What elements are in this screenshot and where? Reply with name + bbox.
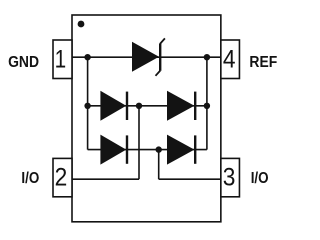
wire: pin3 riser node B <box>158 150 160 180</box>
TVS zener diode Z1 <box>132 38 165 75</box>
wire: GND/REF rail pin1 to pin4 <box>72 56 221 58</box>
svg-text:1: 1 <box>55 45 67 73</box>
wire: GND riser <box>87 57 89 149</box>
junction: pin1/GND node <box>84 54 90 60</box>
wire: pin2 lead <box>72 178 139 180</box>
junction: node A (pin2 net) <box>136 103 142 109</box>
svg-text:I/O: I/O <box>251 170 269 187</box>
wire: lower diode row <box>88 149 207 151</box>
svg-text:4: 4 <box>223 46 236 74</box>
pin 3 box <box>221 158 240 196</box>
wire: upper diode row <box>88 105 207 107</box>
svg-text:I/O: I/O <box>21 170 39 187</box>
diode D4 (I/O pin3 to REF) <box>167 135 195 165</box>
svg-text:GND: GND <box>8 53 39 71</box>
package outline U1 <box>72 15 221 222</box>
diode D2 (I/O pin2 to REF) <box>167 91 195 121</box>
junction: node B (pin3 net) <box>156 146 162 152</box>
svg-text:3: 3 <box>223 163 236 191</box>
junction: REF riser / D2 cathode <box>204 103 210 109</box>
junction: GND riser / D1 anode <box>84 103 90 109</box>
pin 1 box <box>53 40 72 79</box>
wire: pin2 riser node A <box>138 106 140 179</box>
diode D1 (GND to I/O pin2) <box>100 91 127 121</box>
diode D3 (GND to I/O pin3) <box>100 135 127 165</box>
junction: pin4/REF node <box>204 54 210 60</box>
svg-text:2: 2 <box>55 163 68 191</box>
pin 2 box <box>53 158 72 196</box>
pin 1 index dot <box>78 21 85 28</box>
wire: pin3 lead <box>159 178 221 180</box>
svg-text:REF: REF <box>249 53 277 71</box>
pin 4 box <box>221 40 240 79</box>
wire: REF riser <box>206 57 208 149</box>
